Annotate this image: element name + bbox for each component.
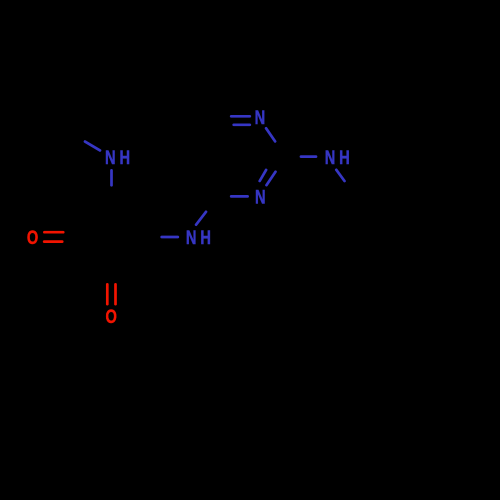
wire C2 to right NH half-bond (301, 155, 316, 158)
svg-text:N: N (105, 146, 116, 169)
node O bottom label (106, 305, 117, 328)
svg-text:H: H (200, 226, 211, 249)
node O left label (27, 226, 38, 249)
svg-text:N: N (255, 185, 266, 208)
wire N1-C2 half-bond (266, 128, 275, 141)
wire C=O bottom left red half (106, 284, 109, 304)
wire N3-C4 half-bond (231, 195, 247, 198)
svg-text:H: H (120, 146, 131, 169)
wire methyl-N half-bond (CH3 to top-left NH) (85, 142, 100, 151)
node NH center label (186, 226, 197, 249)
svg-text:H: H (339, 146, 350, 169)
wire C=O bottom right red half (114, 284, 117, 304)
wire N3=C2 double bond outer half (267, 172, 276, 185)
wire N3=C2 double bond inner half (260, 170, 266, 181)
wire center NH to pyrimidine C4 half-bond (196, 212, 206, 225)
svg-text:O: O (106, 305, 117, 328)
svg-text:N: N (186, 226, 197, 249)
svg-text:O: O (27, 226, 38, 249)
wire C=O left upper red half (44, 231, 63, 234)
node NH right label (325, 146, 336, 169)
svg-text:N: N (255, 106, 266, 129)
wire N-C half-bond below top-left NH (110, 170, 113, 185)
wire N1=C6 double bond inner half (234, 123, 250, 126)
wire C=O left lower red half (44, 240, 62, 243)
node N3 pyrimidine label (255, 185, 266, 208)
node N1 pyrimidine label (255, 106, 266, 129)
node NH top-left label (105, 146, 116, 169)
wire N1=C6 double bond outer half (231, 115, 250, 118)
wire right NH to CH2 half-bond (336, 170, 344, 181)
wire center NH to left carbon half-bond (162, 236, 178, 239)
svg-text:N: N (325, 146, 336, 169)
